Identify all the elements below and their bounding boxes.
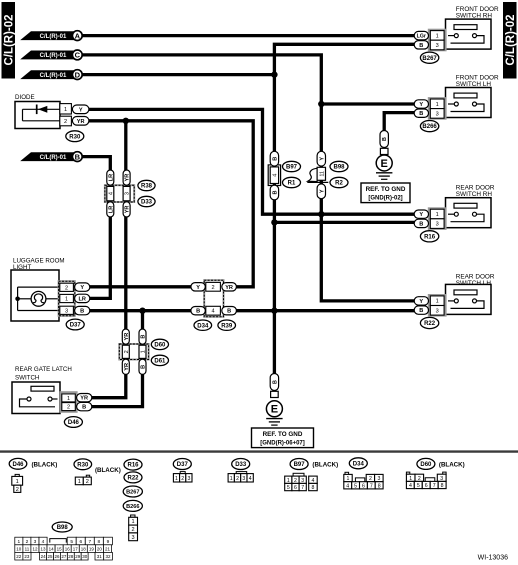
svg-text:1: 1 xyxy=(436,299,439,305)
svg-text:B: B xyxy=(75,152,81,161)
svg-text:1: 1 xyxy=(141,350,147,353)
svg-text:3: 3 xyxy=(436,308,439,314)
svg-text:26: 26 xyxy=(54,554,60,559)
svg-text:C/L(R)-02: C/L(R)-02 xyxy=(4,14,16,65)
svg-text:15: 15 xyxy=(57,546,63,551)
svg-text:C: C xyxy=(75,51,81,60)
svg-text:B: B xyxy=(419,308,423,314)
svg-text:B: B xyxy=(141,335,147,339)
svg-text:3: 3 xyxy=(436,43,439,49)
svg-text:C/L(R)-02: C/L(R)-02 xyxy=(505,14,517,65)
svg-text:2: 2 xyxy=(67,405,70,411)
svg-text:C/L(R)-01: C/L(R)-01 xyxy=(40,34,67,40)
svg-text:R22: R22 xyxy=(424,321,436,327)
svg-text:D34: D34 xyxy=(353,461,365,467)
svg-text:17: 17 xyxy=(73,546,79,551)
svg-text:3: 3 xyxy=(125,192,131,195)
svg-text:4: 4 xyxy=(272,174,278,177)
svg-text:D: D xyxy=(75,70,81,79)
svg-text:3: 3 xyxy=(132,535,135,541)
svg-text:5: 5 xyxy=(287,485,290,491)
svg-text:3: 3 xyxy=(65,308,68,314)
svg-text:3: 3 xyxy=(436,222,439,228)
svg-text:YR: YR xyxy=(124,333,130,341)
svg-text:LR: LR xyxy=(78,296,85,302)
svg-text:D33: D33 xyxy=(235,462,247,468)
svg-text:D46: D46 xyxy=(12,462,24,468)
svg-text:16: 16 xyxy=(65,546,71,551)
svg-text:2: 2 xyxy=(124,350,130,353)
svg-text:B97: B97 xyxy=(294,462,306,468)
svg-text:Y: Y xyxy=(80,285,84,291)
svg-text:B98: B98 xyxy=(57,525,69,531)
svg-text:20: 20 xyxy=(97,546,103,551)
svg-text:7: 7 xyxy=(433,483,436,489)
svg-text:R39: R39 xyxy=(221,323,233,329)
svg-text:R38: R38 xyxy=(141,184,153,190)
svg-text:3: 3 xyxy=(436,111,439,117)
svg-text:24: 24 xyxy=(41,554,47,559)
svg-text:(BLACK): (BLACK) xyxy=(95,467,121,474)
svg-text:4: 4 xyxy=(42,539,45,545)
svg-text:11: 11 xyxy=(25,546,30,551)
svg-text:4: 4 xyxy=(346,483,349,489)
svg-text:R16: R16 xyxy=(127,463,139,469)
svg-text:31: 31 xyxy=(97,554,103,559)
svg-text:D37: D37 xyxy=(177,462,189,468)
svg-text:27: 27 xyxy=(61,554,67,559)
svg-text:B: B xyxy=(419,111,423,117)
svg-text:1: 1 xyxy=(347,476,350,482)
svg-text:1: 1 xyxy=(17,539,20,545)
svg-text:7: 7 xyxy=(301,485,304,491)
svg-text:23: 23 xyxy=(24,554,30,559)
svg-text:6: 6 xyxy=(362,483,365,489)
svg-text:4: 4 xyxy=(249,476,252,482)
svg-text:Y: Y xyxy=(79,107,83,113)
svg-text:D37: D37 xyxy=(70,323,82,329)
svg-text:10: 10 xyxy=(16,546,22,551)
svg-text:21: 21 xyxy=(105,546,111,551)
svg-text:13: 13 xyxy=(40,546,46,551)
svg-text:WI-13036: WI-13036 xyxy=(478,555,508,562)
svg-text:YR: YR xyxy=(124,363,130,371)
svg-text:2: 2 xyxy=(132,527,135,533)
svg-text:4: 4 xyxy=(108,192,114,195)
svg-text:1: 1 xyxy=(436,212,439,218)
svg-text:8: 8 xyxy=(441,483,444,489)
svg-text:8: 8 xyxy=(311,485,314,491)
svg-text:2: 2 xyxy=(181,476,184,482)
svg-text:Y: Y xyxy=(419,102,423,108)
svg-text:2: 2 xyxy=(64,119,67,125)
svg-text:[GND(R)-02]: [GND(R)-02] xyxy=(368,196,402,202)
svg-text:SWITCH: SWITCH xyxy=(15,375,39,382)
svg-text:REF. TO GND: REF. TO GND xyxy=(263,431,303,438)
svg-text:2: 2 xyxy=(212,285,215,291)
svg-text:B: B xyxy=(272,190,278,194)
svg-text:B267: B267 xyxy=(126,490,139,496)
svg-text:REF. TO GND: REF. TO GND xyxy=(366,186,406,193)
svg-text:D33: D33 xyxy=(141,200,153,206)
svg-text:7: 7 xyxy=(370,483,373,489)
svg-text:YR: YR xyxy=(80,396,88,402)
svg-text:12: 12 xyxy=(32,546,38,551)
svg-text:LGr: LGr xyxy=(417,34,426,40)
svg-text:1: 1 xyxy=(64,107,67,113)
svg-text:C/L(R)-01: C/L(R)-01 xyxy=(40,53,67,59)
svg-text:Y: Y xyxy=(319,157,325,161)
svg-text:30: 30 xyxy=(82,554,88,559)
svg-text:14: 14 xyxy=(49,546,55,551)
svg-text:(BLACK): (BLACK) xyxy=(439,461,465,468)
svg-text:8: 8 xyxy=(378,483,381,489)
svg-text:B: B xyxy=(80,309,84,315)
svg-text:R30: R30 xyxy=(69,134,81,140)
svg-text:B: B xyxy=(227,309,231,315)
svg-text:D60: D60 xyxy=(420,462,432,468)
svg-text:5: 5 xyxy=(354,483,357,489)
svg-text:19: 19 xyxy=(89,546,95,551)
svg-text:1: 1 xyxy=(132,519,135,525)
svg-text:R2: R2 xyxy=(335,181,343,187)
svg-text:LR: LR xyxy=(108,206,114,213)
svg-text:B: B xyxy=(382,137,388,141)
svg-text:(BLACK): (BLACK) xyxy=(312,461,338,468)
svg-text:C/L(R)-01: C/L(R)-01 xyxy=(40,73,67,79)
svg-text:YR: YR xyxy=(77,119,85,125)
svg-text:R16: R16 xyxy=(424,234,436,240)
svg-text:D61: D61 xyxy=(154,359,166,365)
svg-text:YR: YR xyxy=(125,174,131,182)
svg-text:9: 9 xyxy=(107,539,110,545)
svg-text:1: 1 xyxy=(230,476,233,482)
svg-text:Y: Y xyxy=(419,299,423,305)
svg-text:B: B xyxy=(419,43,423,49)
svg-text:LR: LR xyxy=(108,174,114,181)
svg-text:4: 4 xyxy=(409,483,412,489)
svg-text:22: 22 xyxy=(16,554,22,559)
svg-text:29: 29 xyxy=(75,554,81,559)
svg-text:6: 6 xyxy=(79,539,82,545)
svg-text:1: 1 xyxy=(78,479,81,485)
svg-text:2: 2 xyxy=(369,476,372,482)
svg-text:B: B xyxy=(82,405,86,411)
svg-text:4: 4 xyxy=(212,309,215,315)
svg-text:D46: D46 xyxy=(68,420,80,426)
svg-text:1: 1 xyxy=(16,479,19,485)
svg-text:[GND(R)-06+07]: [GND(R)-06+07] xyxy=(260,441,305,447)
svg-text:REAR GATE LATCH: REAR GATE LATCH xyxy=(15,366,72,373)
svg-text:2: 2 xyxy=(65,285,68,291)
svg-text:Y: Y xyxy=(319,189,325,193)
svg-text:Y: Y xyxy=(419,212,423,218)
svg-text:8: 8 xyxy=(97,539,100,545)
svg-text:11: 11 xyxy=(319,171,325,176)
svg-text:R30: R30 xyxy=(77,462,89,468)
svg-text:R1: R1 xyxy=(288,181,296,187)
svg-text:B266: B266 xyxy=(126,504,139,510)
svg-text:1: 1 xyxy=(65,297,68,303)
svg-text:5: 5 xyxy=(70,539,73,545)
svg-text:32: 32 xyxy=(105,554,111,559)
svg-text:3: 3 xyxy=(187,476,190,482)
svg-text:E: E xyxy=(271,404,278,416)
svg-text:1: 1 xyxy=(67,396,70,402)
svg-text:B98: B98 xyxy=(333,165,345,171)
svg-text:5: 5 xyxy=(417,483,420,489)
svg-text:DIODE: DIODE xyxy=(15,94,35,101)
svg-text:1: 1 xyxy=(436,33,439,39)
svg-text:B: B xyxy=(141,365,147,369)
svg-text:Y: Y xyxy=(196,285,200,291)
svg-text:E: E xyxy=(381,158,388,170)
svg-text:B: B xyxy=(419,221,423,227)
svg-text:D34: D34 xyxy=(197,323,209,329)
svg-text:B: B xyxy=(272,380,278,384)
svg-text:B: B xyxy=(272,157,278,161)
svg-text:6: 6 xyxy=(294,485,297,491)
svg-text:3: 3 xyxy=(242,476,245,482)
svg-text:6: 6 xyxy=(425,483,428,489)
svg-text:B267: B267 xyxy=(422,56,437,62)
svg-text:2: 2 xyxy=(236,476,239,482)
svg-text:1: 1 xyxy=(175,476,178,482)
svg-text:B97: B97 xyxy=(286,165,298,171)
svg-text:R22: R22 xyxy=(127,476,139,482)
svg-text:25: 25 xyxy=(47,554,53,559)
svg-text:3: 3 xyxy=(377,476,380,482)
svg-text:D60: D60 xyxy=(154,343,166,349)
svg-text:2: 2 xyxy=(26,539,29,545)
svg-text:C/L(R)-01: C/L(R)-01 xyxy=(40,155,67,161)
svg-text:A: A xyxy=(75,31,81,40)
svg-text:YR: YR xyxy=(225,285,233,291)
svg-text:3: 3 xyxy=(34,539,37,545)
svg-text:28: 28 xyxy=(68,554,74,559)
svg-text:1: 1 xyxy=(436,102,439,108)
svg-text:2: 2 xyxy=(86,479,89,485)
svg-text:(BLACK): (BLACK) xyxy=(32,461,58,468)
svg-text:7: 7 xyxy=(88,539,91,545)
svg-text:2: 2 xyxy=(16,487,19,493)
svg-text:B266: B266 xyxy=(422,124,437,130)
svg-text:YR: YR xyxy=(125,206,131,214)
svg-text:18: 18 xyxy=(81,546,87,551)
svg-text:B: B xyxy=(196,309,200,315)
